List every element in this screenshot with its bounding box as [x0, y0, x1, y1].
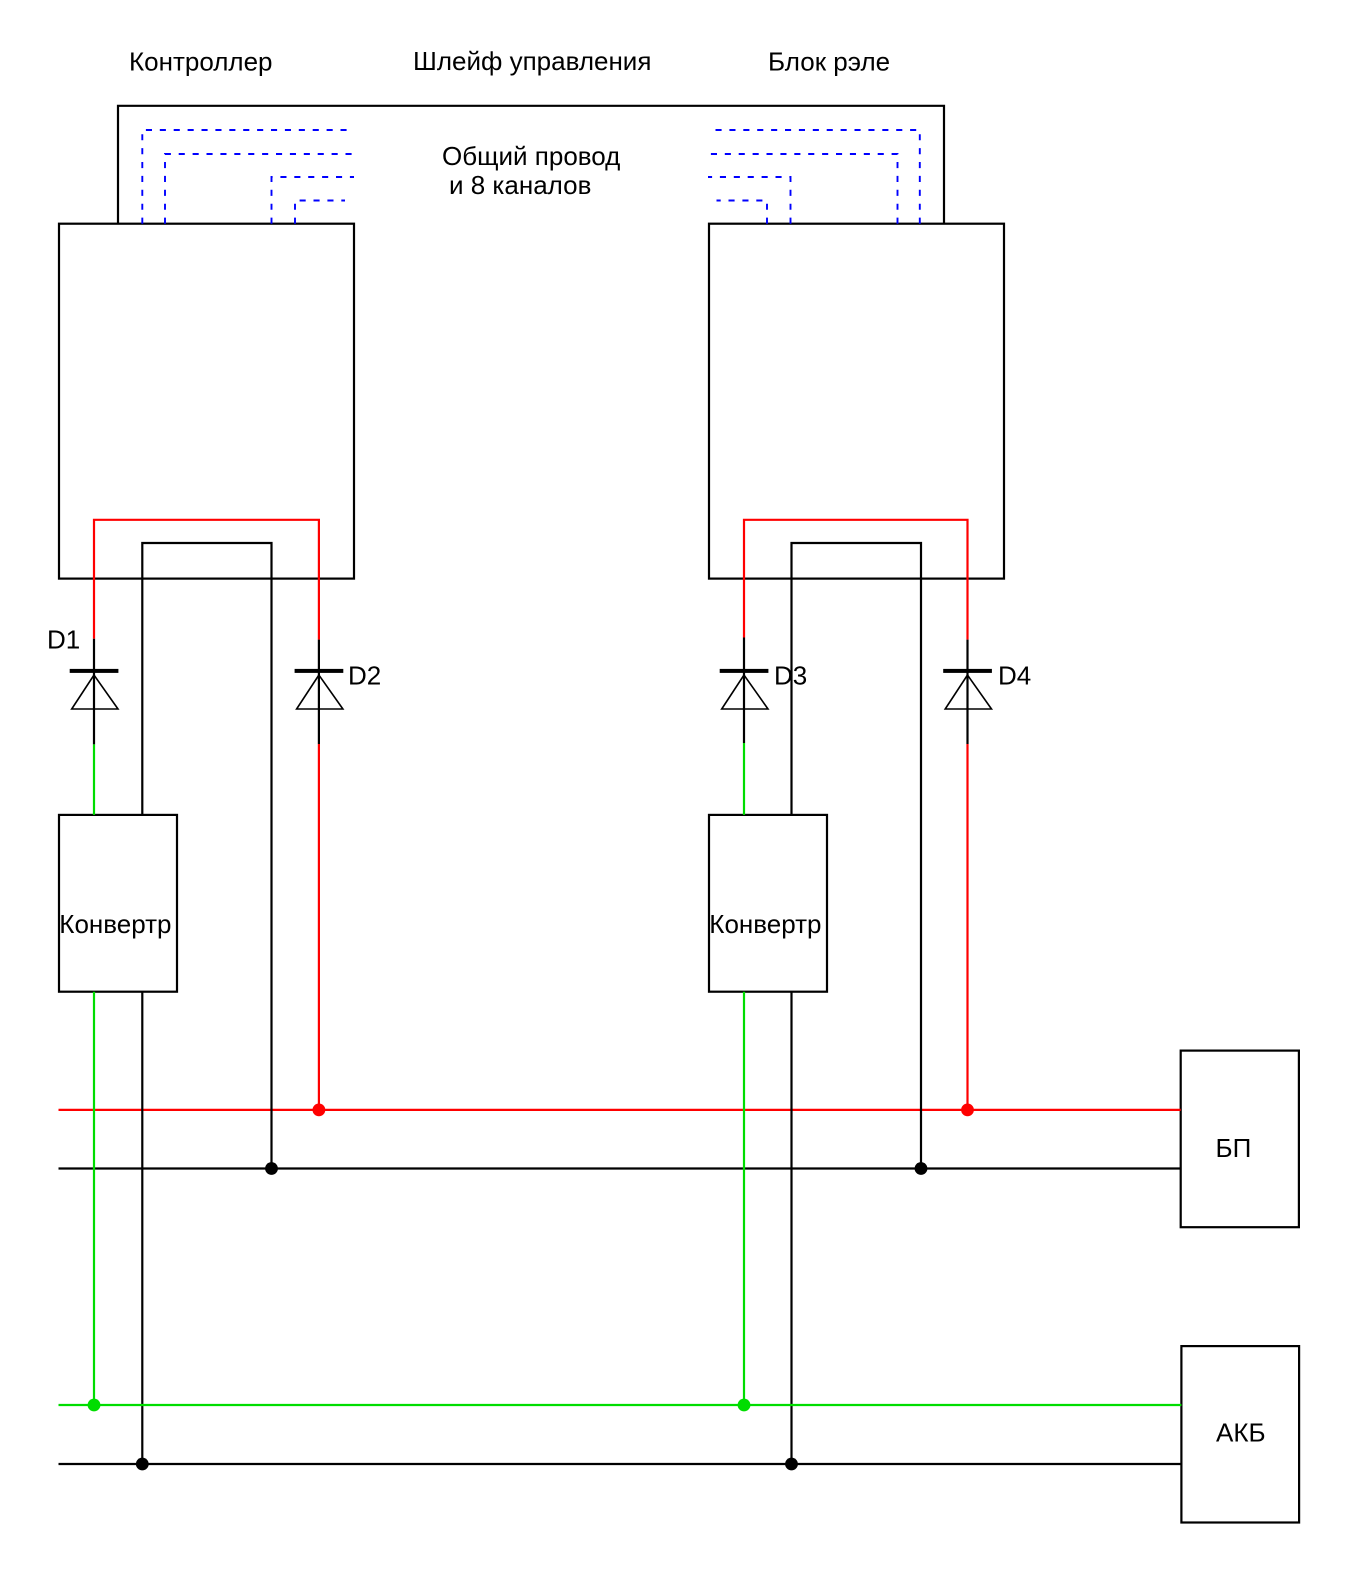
black battery minus bus wire to АКБ [59, 1463, 1182, 1465]
svg-text:Блок рэле: Блок рэле [768, 47, 890, 77]
red +12V bus wire to БП [59, 1109, 1181, 1111]
red +12V supply loop wire (relay box) [744, 520, 968, 640]
blue control wire 4 right (dashed) [717, 201, 768, 224]
red wire D2 anode to +12V bus [318, 744, 320, 1110]
green wire right converter to battery plus bus [743, 992, 745, 1405]
junction node black left (0V bus) [265, 1162, 278, 1175]
black ground loop wire (controller) to 0V bus [142, 543, 271, 1169]
black 0V bus wire to БП [59, 1167, 1181, 1169]
green wire D3 anode to right converter [743, 743, 745, 815]
svg-text:D4: D4 [998, 661, 1031, 691]
junction node black right (battery minus bus) [785, 1458, 798, 1471]
diode D1 [70, 669, 119, 709]
controller box U1 (Контроллер) [59, 224, 354, 579]
blue control wire 1 right (dashed) [713, 130, 920, 224]
junction node red right (+12V bus) [961, 1104, 974, 1117]
svg-text:Конвертр: Конвертр [709, 909, 821, 939]
svg-text:БП: БП [1216, 1133, 1252, 1163]
green wire D1 anode to left converter [93, 744, 95, 815]
red +12V supply loop wire (controller) [94, 520, 319, 640]
converter box U4 (Конвертр right) [709, 815, 827, 992]
diode D4 [943, 669, 992, 709]
junction node green left (battery plus bus) [88, 1399, 101, 1412]
blue control wire 1 left (dashed) [142, 130, 349, 224]
black ground loop wire (relay box) to 0V bus [792, 543, 922, 1169]
svg-text:Контроллер: Контроллер [129, 47, 272, 77]
junction node red left (+12V bus) [313, 1104, 326, 1117]
battery box АКБ [1181, 1346, 1299, 1522]
red wire D4 anode to +12V bus [966, 744, 968, 1110]
relay box U2 (Блок рэле) [709, 224, 1004, 579]
svg-text:D1: D1 [47, 625, 80, 655]
green battery plus bus wire to АКБ [59, 1404, 1182, 1406]
svg-text:Шлейф управления: Шлейф управления [413, 46, 651, 76]
black wire through D4 [966, 640, 968, 744]
svg-text:АКБ: АКБ [1216, 1418, 1266, 1448]
power supply box БП [1181, 1051, 1299, 1228]
blue control wire 2 left (dashed) [165, 154, 353, 224]
black wire through D1 [93, 639, 95, 745]
diode D2 [295, 669, 344, 709]
junction node green right (battery plus bus) [738, 1399, 751, 1412]
black wire through D3 [743, 638, 745, 744]
svg-text:и 8 каналов: и 8 каналов [449, 170, 591, 200]
blue control wire 2 right (dashed) [710, 154, 898, 224]
svg-text:D3: D3 [774, 661, 807, 691]
svg-text:D2: D2 [348, 661, 381, 691]
diode D3 [720, 669, 769, 709]
junction node black right (0V bus) [915, 1162, 928, 1175]
blue control wire 4 left (dashed) [295, 201, 345, 224]
blue control wire 3 left (dashed) [272, 177, 355, 224]
junction node black left (battery minus bus) [136, 1458, 149, 1471]
black wire through D2 [318, 640, 320, 744]
black wire left converter to battery minus bus [141, 992, 143, 1464]
svg-text:Конвертр: Конвертр [59, 909, 171, 939]
blue control wire 3 right (dashed) [708, 177, 791, 224]
black wire right converter to battery minus bus [790, 992, 792, 1464]
green wire left converter to battery plus bus [93, 992, 95, 1405]
converter box U3 (Конвертр left) [59, 815, 177, 992]
cable harness outline (Шлейф управления) [118, 106, 944, 224]
svg-text:Общий провод: Общий провод [442, 141, 620, 171]
